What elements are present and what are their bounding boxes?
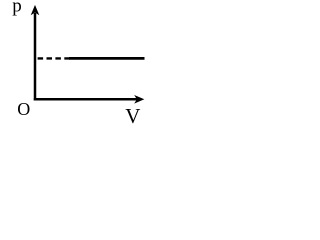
p axis (vertical)	[34, 13, 37, 101]
svg-text:O: O	[17, 99, 30, 119]
svg-text:V: V	[125, 104, 140, 127]
p-V diagram	[0, 0, 176, 127]
V axis (horizontal)	[34, 98, 137, 101]
svg-text:p: p	[12, 0, 22, 17]
isobaric process line (solid)	[69, 57, 145, 60]
dashed line from p axis to process line	[38, 57, 70, 59]
V axis arrowhead	[134, 95, 144, 104]
p axis arrowhead	[31, 5, 40, 15]
